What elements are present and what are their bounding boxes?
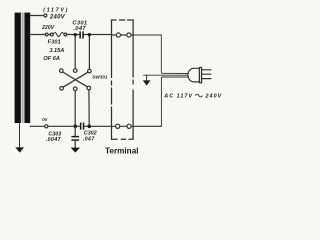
svg-text:OF 6A: OF 6A <box>43 56 59 62</box>
svg-text:(117V): (117V) <box>43 7 69 13</box>
svg-text:.047: .047 <box>73 26 86 32</box>
svg-text:240V: 240V <box>49 15 66 21</box>
svg-text:3.15A: 3.15A <box>49 48 64 54</box>
svg-text:240V: 240V <box>205 93 223 99</box>
svg-text:SW301: SW301 <box>92 74 108 79</box>
svg-text:.047: .047 <box>83 136 95 142</box>
svg-text:0v: 0v <box>42 117 48 122</box>
svg-text:F301: F301 <box>48 40 61 46</box>
svg-text:220V: 220V <box>41 25 55 31</box>
svg-text:Terminal: Terminal <box>105 147 139 156</box>
svg-text:.0047: .0047 <box>46 137 62 143</box>
svg-text:AC 117V: AC 117V <box>163 93 193 99</box>
